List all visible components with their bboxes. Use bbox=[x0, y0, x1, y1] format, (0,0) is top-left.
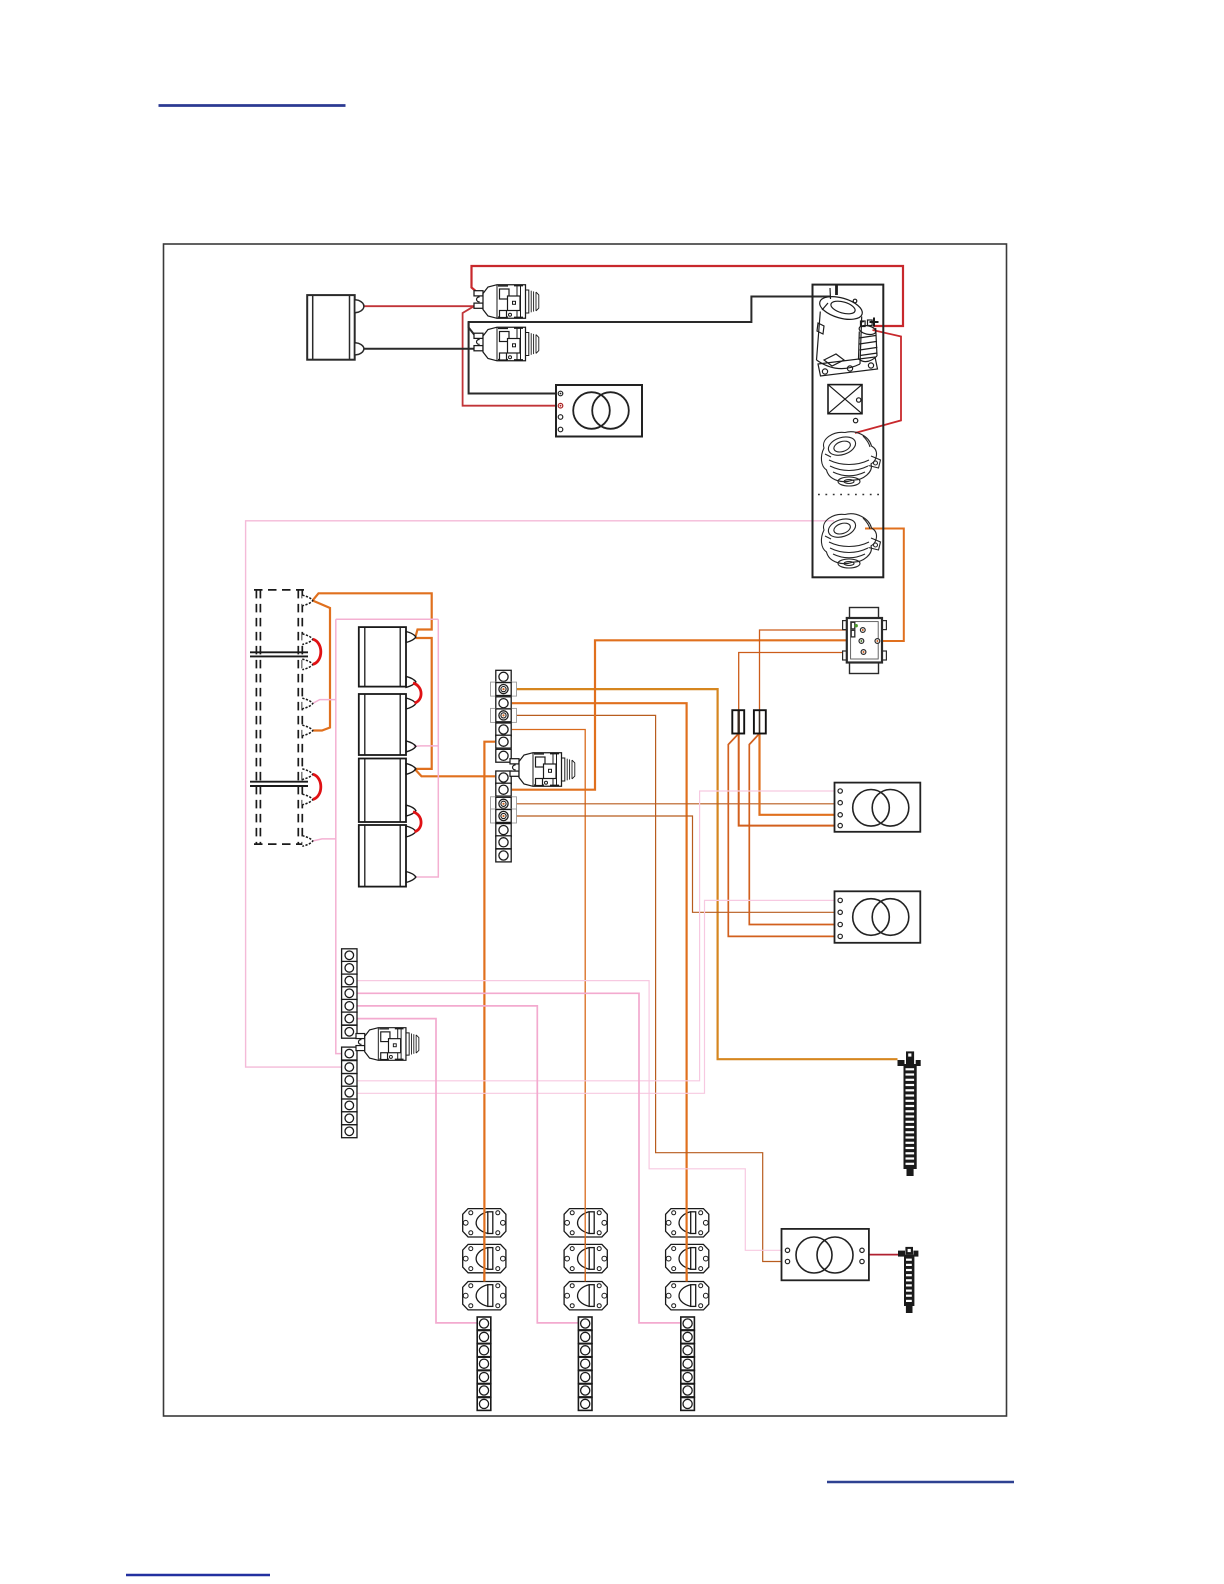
breaker B1c bbox=[463, 1282, 506, 1310]
wire orange bank T1 to T5 bbox=[313, 601, 330, 731]
wire thin orange regulator bottom pin to fuse F1 bbox=[739, 653, 864, 711]
charger XFMR3 bbox=[782, 1229, 869, 1280]
bottom strip S1 bbox=[477, 1317, 491, 1410]
battery main bbox=[307, 295, 364, 360]
wire orange strip row-l2 to regulator mid pin bbox=[512, 640, 877, 789]
regulator bbox=[843, 608, 887, 674]
breaker B1a bbox=[463, 1209, 506, 1237]
gauge bbox=[556, 385, 642, 437]
switch box1 bbox=[359, 627, 416, 687]
hyperlink rule top bbox=[159, 104, 346, 107]
wire orange strip row5 to breaker column2 bbox=[512, 730, 585, 1283]
charger XFMR1 bbox=[835, 783, 921, 832]
bank jumper arc J2 bbox=[313, 774, 321, 799]
starter motor bbox=[817, 286, 878, 377]
breaker B3a bbox=[666, 1209, 709, 1237]
wire red solenoid + to alternator ALT1 bbox=[855, 330, 901, 433]
breaker B1b bbox=[463, 1244, 506, 1272]
wire red CB1 top loop to solenoid + bbox=[472, 266, 904, 326]
breaker B3b bbox=[666, 1244, 709, 1272]
fuse F2 bbox=[754, 710, 766, 733]
breaker B2c bbox=[564, 1282, 607, 1310]
breaker CB2 bbox=[474, 327, 539, 361]
wire black battery- to breaker CB2 bbox=[363, 348, 474, 350]
terminal strip TB1 bbox=[491, 670, 517, 862]
wire black ground to gauge pin1 bbox=[469, 322, 558, 394]
bank terminal T4 bbox=[302, 698, 313, 709]
wire black CB2 to starter motor bbox=[469, 297, 830, 336]
bottom strip S3 bbox=[681, 1317, 695, 1410]
wire red charger XFMR3 to fuse block FB2 bbox=[869, 1254, 900, 1256]
switch box4 bbox=[359, 825, 416, 887]
wire orange positive bus down to box3 arrow bbox=[415, 638, 432, 769]
bank terminal T6 bbox=[302, 769, 313, 780]
bank terminal T8 bbox=[302, 836, 313, 847]
switch jumper arc J3 bbox=[413, 683, 421, 703]
wire darkorange strip row4 to charger XFMR3 bbox=[512, 715, 788, 1261]
breaker B2b bbox=[564, 1244, 607, 1272]
bank terminal T5 bbox=[302, 725, 313, 736]
alternator ALT1 bbox=[821, 432, 880, 486]
switch box2 bbox=[359, 694, 416, 755]
wire orange column3 feed over breakers bbox=[685, 1208, 687, 1282]
breaker B2a bbox=[564, 1209, 607, 1237]
hyperlink rule bottom right bbox=[827, 1481, 1014, 1483]
battery bank dashed bbox=[250, 590, 308, 844]
charger XFMR2 bbox=[835, 891, 921, 943]
wire orange column2 feed over breakers bbox=[584, 1208, 586, 1282]
plug P2 bbox=[510, 753, 575, 787]
wire pink box2 bottom to negative bus bbox=[414, 745, 439, 748]
fuse block FB1 bbox=[898, 1051, 921, 1176]
wire red tap to gauge pin2 bbox=[463, 306, 558, 406]
wire pale pink charger XFMR1 pin1 to strip TB2 row10 bbox=[357, 791, 841, 1081]
wire pink negative bus right vertical to box4 bbox=[416, 619, 438, 877]
switch jumper arc J4 bbox=[413, 812, 421, 832]
wire thin orange strip row-l3 to charger XFMR1 pin2 bbox=[512, 803, 840, 805]
wire pink negative bus top link bbox=[336, 618, 439, 620]
wire pink strip TB2 row6 to bottom strip1 bbox=[357, 1019, 477, 1323]
COMPONENTS-LAYER bbox=[250, 285, 921, 1411]
wire orange fuse F2 to charger XFMR1 pin3 bbox=[760, 734, 841, 815]
wire orange column1 feed over breakers bbox=[483, 1208, 485, 1282]
bank terminal T7 bbox=[302, 794, 313, 805]
solenoid plus terminal bbox=[870, 318, 879, 327]
bank jumper arc J1 bbox=[313, 639, 321, 664]
plug P3 bbox=[356, 1028, 419, 1061]
wire fuse F2 through bbox=[759, 710, 761, 733]
wire overlay breaker feeds bbox=[484, 1208, 686, 1282]
wire pink bank bottom terminal to negative bus bbox=[313, 839, 336, 841]
dotted separator bbox=[818, 494, 882, 496]
diagram border frame bbox=[164, 244, 1007, 1416]
wire orange alternator ALT2 to regulator right pin bbox=[865, 529, 904, 642]
wire orange box3 arrow to strip TB1 row8 bbox=[415, 769, 495, 776]
alternator ALT2 bbox=[821, 514, 880, 568]
bank terminal T3 bbox=[302, 659, 313, 670]
switch box3 bbox=[359, 759, 416, 823]
wire orange strip row6 to breaker column1 bbox=[484, 742, 495, 1282]
wire pink strip TB2 row4 to bottom strip3 bbox=[357, 993, 682, 1323]
WIRES-LAYER bbox=[246, 266, 904, 1323]
wire pink alternator ALT2 to strip TB2 row9 bbox=[246, 521, 834, 1067]
fuse F1 bbox=[732, 710, 744, 733]
wire amber strip row2 to fuse block FB1 bbox=[512, 689, 898, 1059]
wire thin orange regulator top pin to fuse F2 bbox=[760, 630, 863, 710]
wire orange fuse F1 to charger XFMR1 pin4 bbox=[739, 734, 841, 826]
bank terminal T2 bbox=[302, 634, 313, 645]
wire pink strip TB2 row5 to bottom strip2 bbox=[357, 1006, 579, 1323]
wire pink negative bus vertical bbox=[336, 619, 342, 1053]
bank terminal T1 bbox=[302, 595, 313, 606]
wire pink bank T4 to negative bus bbox=[313, 700, 336, 704]
wire fuse F1 through bbox=[738, 710, 740, 733]
wire red battery+ to breaker CB1 bbox=[363, 305, 474, 307]
wire orange bank T1 up to positive bus bbox=[313, 593, 432, 636]
terminal strip TB2 bbox=[342, 949, 357, 1138]
fuse block FB2 bbox=[898, 1247, 918, 1313]
wire orange fuse F1 branch to charger XFMR2 pin4 bbox=[728, 734, 840, 937]
wire pale pink strip TB2 row3 to charger XFMR3 pin1 bbox=[357, 981, 788, 1251]
wire pale pink charger XFMR2 pin1 to strip TB2 row11 bbox=[357, 900, 841, 1093]
breaker B3c bbox=[666, 1282, 709, 1310]
wire orange strip row3 to breaker column3 bbox=[512, 703, 687, 1282]
engine compartment box bbox=[813, 285, 884, 578]
bottom strip S2 bbox=[578, 1317, 592, 1410]
wire orange fuse F2 branch to charger XFMR2 pin3 bbox=[749, 734, 840, 925]
relay X box bbox=[828, 385, 862, 423]
wire thin orange strip row-l4 to charger XFMR2 pin2 bbox=[512, 816, 840, 912]
hyperlink rule bottom left bbox=[126, 1574, 270, 1576]
breaker CB1 bbox=[474, 285, 539, 319]
